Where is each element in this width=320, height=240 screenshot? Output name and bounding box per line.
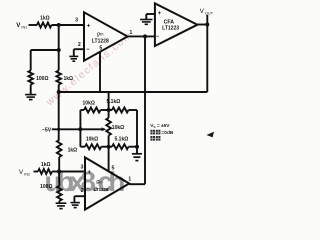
U1 minus sign: [86, 47, 90, 53]
pin label 3 U1: [75, 17, 78, 23]
svg-text:LT1228: LT1228: [92, 38, 109, 44]
node I junction: [107, 145, 111, 149]
node B junction: [57, 48, 61, 52]
wire VIN1 to R1: [29, 24, 38, 26]
wire right rail VOUT: [206, 25, 208, 93]
resistor R9 100ohm: [57, 186, 62, 201]
U1 LT1228 label: [92, 38, 109, 44]
potentiometer P1 10k: [106, 92, 111, 147]
svg-text:IN1: IN1: [21, 26, 27, 30]
pin label 1 U1: [130, 30, 133, 36]
svg-text:OUT: OUT: [205, 11, 214, 15]
U3 plus sign: [158, 11, 162, 17]
label R4 10k: [83, 100, 95, 106]
node VIN1 label: [16, 22, 27, 29]
op-amp U2 LT1228 gm: [85, 157, 129, 209]
U1 gm label: [97, 31, 104, 37]
pin label 2 U2: [81, 188, 84, 194]
label -5V: [42, 127, 52, 133]
wire node E down: [58, 172, 60, 186]
svg-text:3: 3: [75, 17, 78, 23]
resistor R2 100ohm: [28, 71, 33, 85]
wire network left rail: [79, 110, 81, 147]
wire U1 out: [128, 35, 155, 37]
wire rail A middle: [58, 92, 60, 140]
wiper arrowhead: [102, 127, 107, 131]
label R10 1k: [41, 162, 51, 168]
node F junction: [78, 127, 82, 131]
node J junction ground: [135, 145, 139, 149]
U3 LT1223 label: [162, 25, 179, 31]
label R9 100ohm: [40, 184, 52, 190]
U2 gm label: [96, 179, 102, 185]
wire U2 pin2 to ground: [73, 196, 75, 202]
wire U3 output: [197, 24, 207, 26]
node G junction CFA minus: [143, 34, 147, 38]
label R6 10k: [86, 136, 98, 142]
U2 minus sign: [87, 186, 91, 192]
wire U1 pin2: [74, 48, 84, 50]
svg-text:5.1kΩ: 5.1kΩ: [115, 136, 129, 142]
svg-text:–5V: –5V: [42, 127, 52, 133]
wire -5V to pot wiper: [52, 128, 103, 130]
resistor R5 5.1k: [112, 108, 129, 113]
U3 minus sign: [156, 34, 160, 40]
label R2 100ohm: [36, 76, 48, 82]
wire VOUT stub: [206, 15, 208, 25]
pin label 1 U2: [128, 176, 131, 182]
ground G6: [71, 203, 80, 208]
ground G4: [132, 154, 142, 161]
op-amp U1 LT1228 gm: [84, 12, 128, 60]
svg-text:2: 2: [78, 42, 81, 48]
wire R2 to ground: [30, 85, 32, 95]
resistor R7 1k: [57, 140, 62, 157]
pin label 5 U1: [99, 45, 102, 51]
pin label 5 U2: [111, 165, 114, 171]
wire U1 pin5 stub: [99, 52, 101, 92]
wire R3 to node C: [58, 85, 60, 93]
node VIN2 label: [19, 169, 30, 176]
svg-text:+: +: [158, 11, 162, 17]
ground G3: [140, 20, 152, 25]
node D -5V tap: [57, 128, 60, 131]
ground G5: [56, 203, 67, 208]
wire U2 minus input: [74, 195, 85, 197]
svg-text:+: +: [87, 22, 91, 29]
svg-text:1kΩ: 1kΩ: [40, 16, 50, 22]
label R7 1k: [68, 148, 78, 154]
node VOUT label: [200, 8, 214, 15]
annotation VS gain text: [150, 123, 174, 141]
wire VIN2 to R10: [34, 171, 39, 173]
wire row1 left lead: [80, 109, 84, 111]
wire U2 out: [129, 183, 145, 185]
wire long feedback y92: [59, 91, 208, 93]
wire R1 to U1 pin3: [52, 24, 85, 26]
wire network right rail: [136, 110, 138, 147]
label P1 10k: [112, 125, 124, 131]
op-amp U3 CFA LT1223: [155, 3, 198, 46]
node H junction: [107, 108, 111, 112]
resistor R8 5.1k: [112, 144, 129, 149]
svg-text:VS = ±5V: VS = ±5V: [150, 123, 170, 129]
wire R9 to ground: [58, 201, 60, 203]
wire row1 lead2: [109, 109, 137, 111]
label R5 5.1k: [107, 99, 121, 105]
node E junction VIN2: [57, 169, 61, 173]
wire node B left: [31, 49, 59, 51]
svg-text:=0dB: =0dB: [162, 130, 174, 136]
wire pin2 to ground: [73, 49, 75, 56]
ground G1: [25, 95, 36, 100]
svg-text:m: m: [100, 32, 104, 37]
svg-text:ubx8. ch: ubx8. ch: [45, 166, 126, 197]
svg-text:1kΩ: 1kΩ: [68, 148, 78, 154]
wire CFA minus rail: [144, 36, 146, 184]
wire R10 to node E: [52, 171, 59, 173]
wire to R2: [30, 50, 32, 71]
wire U2 pin5 stub: [108, 147, 110, 172]
wire node B to R3: [58, 50, 60, 71]
wire row3 mid: [101, 146, 108, 148]
svg-text:1: 1: [128, 176, 131, 182]
wire row3 lead2: [109, 146, 137, 148]
U2 LT1228 label: [94, 187, 109, 192]
wire plus to ground: [145, 14, 147, 19]
label R1 1k: [40, 16, 50, 22]
wire U3 plus input: [146, 13, 155, 15]
wire R7 to node E: [58, 157, 60, 172]
svg-text:10kΩ: 10kΩ: [86, 136, 98, 142]
cursor mark: [207, 132, 215, 138]
U1 plus sign: [87, 22, 91, 29]
wire U2 plus input: [59, 171, 85, 173]
svg-text:10kΩ: 10kΩ: [83, 100, 95, 106]
svg-text:IN2: IN2: [24, 173, 30, 177]
node VOUT junction: [205, 23, 209, 27]
pin label 3 U2: [80, 165, 83, 171]
resistor R3 1k: [56, 71, 61, 85]
pin label 2 U1: [78, 42, 81, 48]
wire node A down: [58, 25, 60, 50]
svg-text:LT1223: LT1223: [162, 25, 179, 31]
ground G2: [69, 56, 78, 61]
wire row3 left lead: [80, 146, 85, 148]
svg-text:100Ω: 100Ω: [36, 76, 48, 82]
resistor R1 1k: [37, 23, 52, 28]
U2 plus sign: [87, 170, 91, 176]
node A junction: [57, 23, 61, 27]
wire node J to ground: [136, 147, 138, 154]
resistor R4 10k: [84, 108, 101, 113]
label R3 1k: [64, 76, 74, 82]
svg-text:10kΩ: 10kΩ: [112, 125, 124, 131]
resistor R6 10k: [85, 144, 101, 149]
wire row1 mid: [101, 109, 109, 111]
svg-text:−: −: [86, 47, 90, 53]
label R8 5.1k: [115, 136, 129, 142]
resistor R10 1k: [38, 169, 52, 174]
U3 CFA label: [164, 20, 175, 26]
node C junction: [57, 90, 61, 94]
